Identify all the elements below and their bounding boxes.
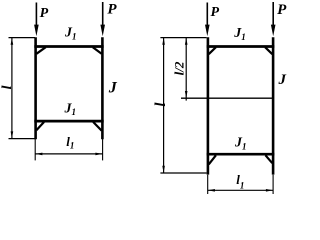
bottom beam J1 (right frame) xyxy=(207,153,275,156)
column left (right frame) xyxy=(207,37,210,174)
corner brace bottom-right (right frame) xyxy=(266,155,273,163)
force arrow P (right frame, left column) xyxy=(205,3,210,37)
svg-text:l: l xyxy=(0,85,15,89)
arrowhead left xyxy=(208,189,215,192)
arrowhead left xyxy=(35,153,42,156)
arrowhead up xyxy=(185,38,188,45)
dimension l (left frame) xyxy=(9,38,36,139)
dimension l (right frame) xyxy=(160,38,206,173)
corner brace top-right (right frame) xyxy=(265,47,272,54)
extension line right xyxy=(102,139,104,160)
force arrow P (left frame, right column) xyxy=(100,2,105,36)
arrowhead up xyxy=(162,38,165,45)
column right (right frame) xyxy=(272,37,275,174)
top beam J1 (right frame) xyxy=(207,45,275,48)
arrowhead down xyxy=(162,166,165,173)
bottom beam J1 (left frame) xyxy=(34,120,103,123)
arrowhead right xyxy=(95,153,102,156)
corner brace bottom-right (left frame) xyxy=(93,122,101,131)
extension line top xyxy=(9,37,36,39)
svg-text:P: P xyxy=(211,5,220,20)
corner brace bottom-left (left frame) xyxy=(36,122,44,130)
extension line top (shared with l/2) xyxy=(160,37,206,39)
corner brace top-right (left frame) xyxy=(93,47,102,54)
svg-text:P: P xyxy=(107,2,117,18)
dimension line vertical xyxy=(163,38,165,173)
arrowhead down xyxy=(185,91,188,98)
extension line left xyxy=(207,175,209,194)
svg-text:P: P xyxy=(40,6,49,21)
dimension line horizontal xyxy=(35,153,102,155)
arrowhead down xyxy=(11,131,14,138)
svg-text:l/2: l/2 xyxy=(172,61,187,75)
dimension line vertical xyxy=(11,38,13,139)
corner brace top-left (right frame) xyxy=(209,47,216,54)
arrowhead right xyxy=(266,189,273,192)
extension line right xyxy=(272,175,274,194)
column right (left frame) xyxy=(101,37,104,139)
extension line bottom xyxy=(9,138,36,140)
arrowhead up xyxy=(11,38,14,45)
dimension l1 (left frame) xyxy=(35,139,102,160)
dimension l/2 (right frame) xyxy=(185,38,188,101)
extension line left xyxy=(34,139,36,160)
dimension line vertical xyxy=(185,38,187,101)
svg-text:J: J xyxy=(108,80,118,97)
force arrow P (right frame, right column) xyxy=(271,2,276,36)
dimension l1 (right frame) xyxy=(208,175,273,194)
extension line bottom xyxy=(160,172,206,174)
mid-height line (right frame) xyxy=(181,97,274,99)
dimension line horizontal xyxy=(208,189,273,191)
svg-text:P: P xyxy=(277,2,287,18)
corner brace bottom-left (right frame) xyxy=(209,155,216,164)
force arrow P (left frame, left column) xyxy=(34,3,39,37)
column left (left frame) xyxy=(34,37,37,139)
top beam J1 (left frame) xyxy=(34,45,103,48)
corner brace top-left (left frame) xyxy=(36,47,45,54)
svg-text:J: J xyxy=(278,72,287,88)
